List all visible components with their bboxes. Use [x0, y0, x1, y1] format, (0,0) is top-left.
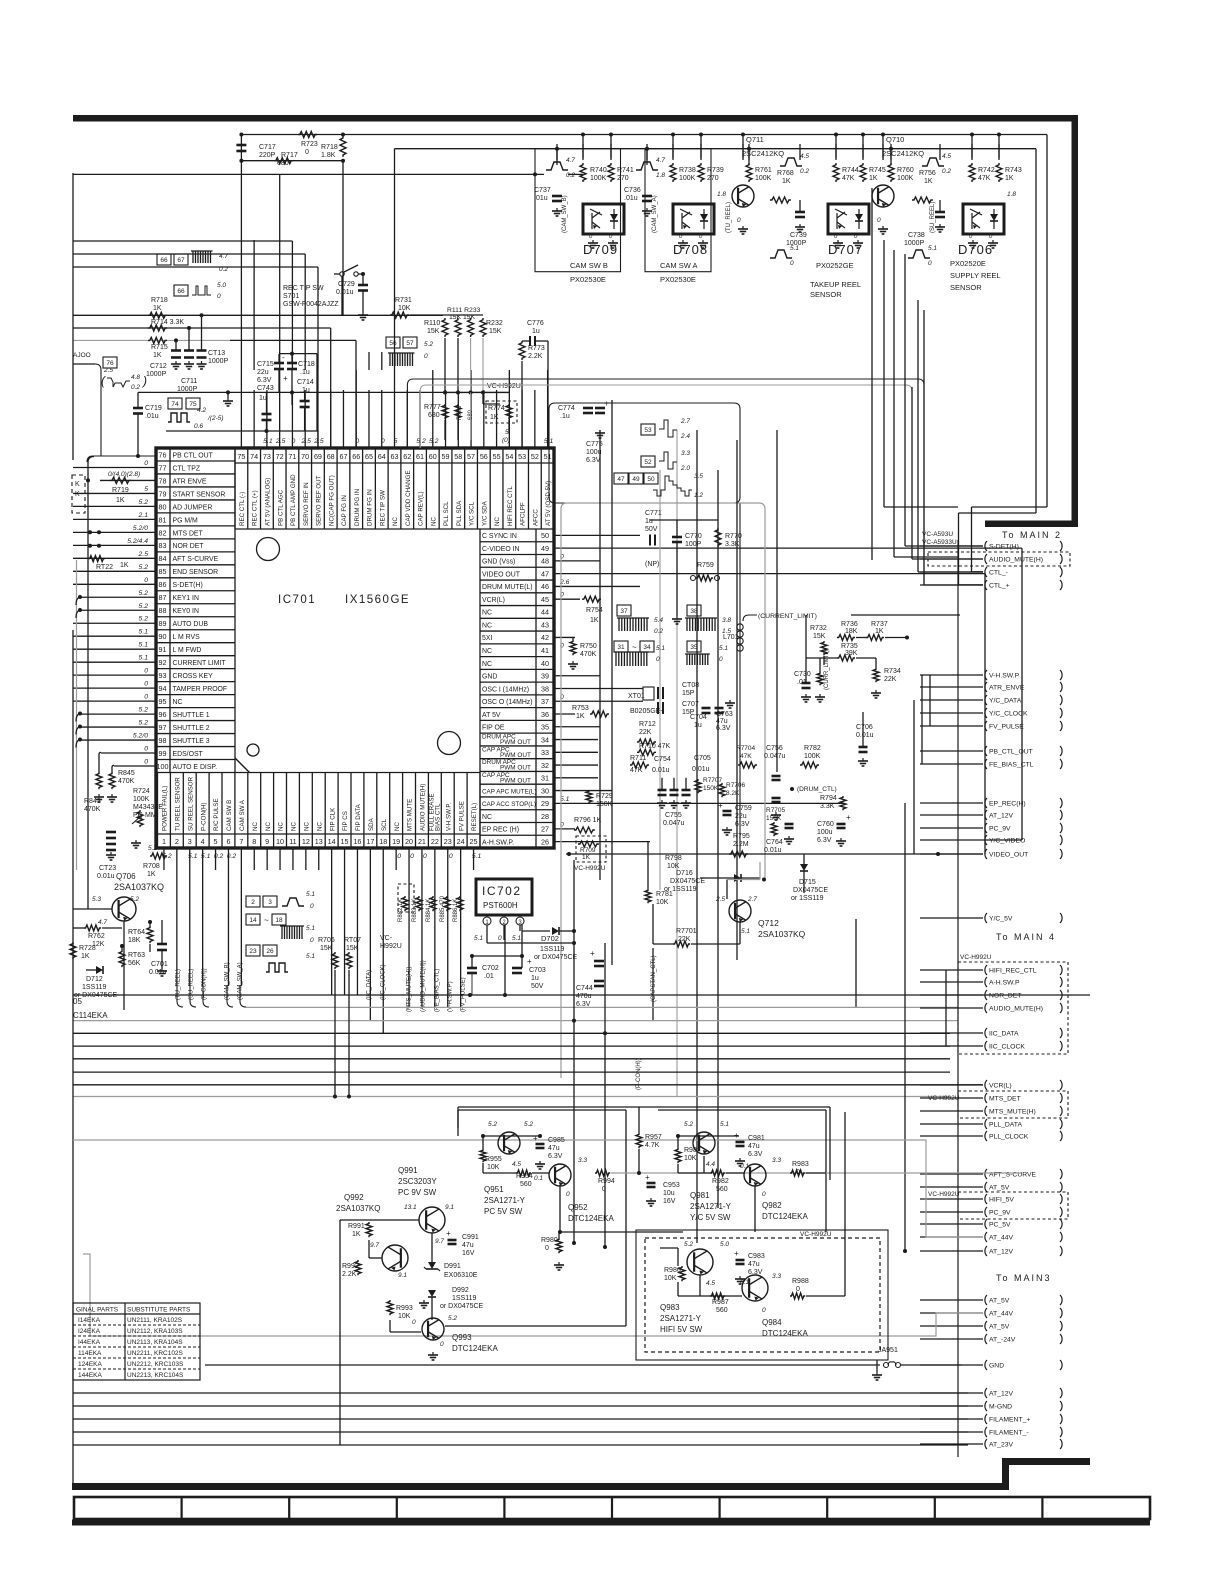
svg-text:START SENSOR: START SENSOR — [173, 491, 226, 498]
svg-text:SHUTTLE 2: SHUTTLE 2 — [173, 725, 210, 732]
svg-text:D707: D707 — [828, 242, 863, 257]
svg-text:EX06310E: EX06310E — [444, 1272, 478, 1279]
svg-text:PB CTL OUT: PB CTL OUT — [173, 452, 214, 459]
svg-text:5.1: 5.1 — [741, 928, 750, 935]
wire top rail bottom section — [458, 1106, 830, 1108]
connector Y/C_VIDEO — [985, 835, 987, 845]
svg-text:C704: C704 — [690, 714, 707, 721]
svg-text:0: 0 — [292, 438, 296, 445]
svg-text:FIP OE: FIP OE — [482, 725, 505, 732]
svg-text:AT_12V: AT_12V — [989, 813, 1014, 820]
svg-text:80: 80 — [159, 502, 167, 511]
bus horizontal lines mid-low — [73, 994, 1090, 996]
svg-text:PLL_CLOCK: PLL_CLOCK — [989, 1134, 1029, 1141]
resistor R754 1K — [582, 596, 601, 602]
svg-text:1K: 1K — [352, 1231, 361, 1238]
svg-text:(DRUM_CTL): (DRUM_CTL) — [797, 786, 837, 793]
svg-text:5.2: 5.2 — [524, 1121, 533, 1128]
svg-text:64: 64 — [378, 452, 386, 461]
capacitor C991 47u — [448, 1239, 457, 1242]
svg-text:NC: NC — [265, 822, 272, 831]
svg-text:87: 87 — [159, 593, 167, 602]
svg-text:0.2: 0.2 — [219, 266, 228, 273]
svg-text:D709: D709 — [583, 242, 618, 257]
svg-text:Q992: Q992 — [344, 1193, 364, 1202]
svg-text:AUTO DUB: AUTO DUB — [173, 621, 209, 628]
svg-text:R7701: R7701 — [676, 928, 697, 935]
svg-text:PG M/M: PG M/M — [173, 517, 199, 524]
svg-text:NC: NC — [252, 822, 259, 831]
svg-text:62: 62 — [403, 452, 411, 461]
svg-text:C776: C776 — [527, 320, 544, 327]
connector PC_9V — [985, 823, 987, 833]
svg-text:5.1: 5.1 — [139, 629, 149, 636]
svg-text:AT 5V: AT 5V — [482, 712, 501, 719]
potentiometer R724 PG MM — [137, 810, 143, 827]
svg-text:PB_CTL_OUT: PB_CTL_OUT — [989, 749, 1033, 756]
connector IIC_DATA — [985, 1028, 987, 1038]
svg-text:76: 76 — [159, 450, 167, 459]
boxed 23 26 squarewave — [246, 945, 260, 956]
svg-text:R777: R777 — [424, 404, 441, 411]
resistor R743 1K — [996, 163, 1002, 182]
svg-text:6.3V: 6.3V — [716, 725, 731, 732]
svg-text:PLL_DATA: PLL_DATA — [989, 1122, 1022, 1129]
svg-text:10K: 10K — [398, 305, 411, 312]
svg-text:5.1: 5.1 — [474, 935, 483, 942]
IC701 right pin grid — [479, 529, 481, 848]
svg-text:100K: 100K — [804, 753, 821, 760]
svg-text:3.3K: 3.3K — [820, 803, 835, 810]
svg-text:0.01u: 0.01u — [336, 289, 354, 296]
svg-text:R795: R795 — [733, 833, 750, 840]
svg-text:15K: 15K — [489, 328, 502, 335]
svg-text:36: 36 — [541, 710, 549, 719]
connector CTL_- — [985, 567, 987, 577]
svg-text:5.2: 5.2 — [130, 896, 139, 903]
wire opto drop lines — [556, 144, 558, 160]
svg-text:K: K — [75, 481, 80, 488]
svg-text:22K: 22K — [884, 676, 897, 683]
svg-text:0.2: 0.2 — [214, 853, 224, 860]
svg-text:R762: R762 — [88, 933, 105, 940]
svg-text:C736: C736 — [624, 187, 641, 194]
svg-text:70: 70 — [301, 452, 309, 461]
svg-text:5.2: 5.2 — [139, 707, 149, 714]
svg-text:M-GND: M-GND — [989, 1404, 1012, 1411]
svg-text:R739: R739 — [707, 167, 724, 174]
svg-text:63: 63 — [391, 452, 399, 461]
svg-text:5.2: 5.2 — [448, 1315, 457, 1322]
svg-text:5XI: 5XI — [482, 635, 492, 642]
resistor R718b 1K — [148, 312, 167, 318]
boxed 37 comb — [617, 605, 631, 616]
svg-text:100u: 100u — [817, 829, 833, 836]
svg-text:0.047u: 0.047u — [764, 753, 786, 760]
svg-text:5.1: 5.1 — [263, 438, 273, 445]
svg-text:R110: R110 — [424, 320, 440, 327]
wires current limit — [856, 637, 866, 639]
svg-text:AJOO: AJOO — [73, 352, 91, 359]
svg-text:2.2M: 2.2M — [733, 841, 749, 848]
svg-text:D715: D715 — [799, 879, 816, 886]
svg-text:HIFI 5V SW: HIFI 5V SW — [660, 1325, 703, 1334]
svg-text:5: 5 — [505, 429, 509, 436]
svg-text:94: 94 — [159, 684, 167, 693]
wire left vertical border — [72, 630, 74, 1483]
svg-text:2.1: 2.1 — [138, 512, 149, 519]
svg-text:C756: C756 — [766, 745, 783, 752]
svg-text:100K: 100K — [133, 796, 150, 803]
svg-text:560: 560 — [716, 1186, 728, 1193]
svg-text:AUDIO_MUTE(H): AUDIO_MUTE(H) — [989, 557, 1043, 564]
resistor R742 47K — [969, 163, 975, 182]
svg-text:5.2: 5.2 — [139, 499, 149, 506]
svg-text:EP REC (H): EP REC (H) — [482, 827, 519, 834]
svg-text:22: 22 — [431, 837, 439, 846]
connector AT_23V — [985, 1439, 987, 1449]
wires bottom pin long droppers — [176, 870, 178, 986]
svg-text:R719: R719 — [112, 487, 129, 494]
capacitor C983 47u — [736, 1259, 745, 1262]
svg-text:5.1: 5.1 — [512, 935, 521, 942]
svg-text:0.1: 0.1 — [740, 1163, 749, 1170]
svg-text:R983: R983 — [792, 1161, 809, 1168]
svg-text:75: 75 — [189, 401, 197, 408]
svg-text:6.3V: 6.3V — [257, 377, 272, 384]
svg-text:C983: C983 — [748, 1253, 765, 1260]
svg-text:4.4: 4.4 — [706, 1161, 715, 1168]
svg-text:42: 42 — [541, 633, 549, 642]
wire left gray vertical — [76, 560, 78, 870]
connector AT_12V — [985, 1388, 987, 1398]
svg-text:23: 23 — [444, 837, 452, 846]
boxed numbers 74 75 with squarewave — [168, 398, 182, 409]
capacitor C739 1000P — [795, 211, 805, 214]
connector AUDIO_MUTE(H) — [985, 554, 987, 564]
svg-text:2.0: 2.0 — [680, 465, 690, 472]
wire rail2 drops — [556, 149, 558, 165]
svg-text:I44EKA: I44EKA — [78, 1339, 101, 1346]
svg-text:2SA1037KQ: 2SA1037KQ — [114, 882, 164, 892]
svg-text:AT_5V: AT_5V — [989, 1298, 1010, 1305]
op-amp U1 IC701 IX1560GE outline — [156, 448, 554, 848]
svg-text:FIP DATA: FIP DATA — [355, 803, 362, 831]
svg-text:68: 68 — [327, 452, 335, 461]
svg-text:56K: 56K — [128, 960, 141, 967]
svg-text:19: 19 — [392, 837, 400, 846]
svg-text:To MAIN 4: To MAIN 4 — [996, 932, 1056, 942]
svg-text:60: 60 — [429, 452, 437, 461]
svg-text:54: 54 — [505, 452, 513, 461]
connector FILAMENT_- — [985, 1427, 987, 1437]
svg-text:57: 57 — [406, 340, 414, 347]
svg-text:100u: 100u — [586, 449, 602, 456]
dashed box HIFI group VC-H992U — [645, 1238, 880, 1352]
wire mid row 854 main — [566, 853, 983, 855]
IC701 left pin grid — [169, 448, 171, 773]
transistor Q712 — [729, 900, 751, 922]
svg-text:R715: R715 — [151, 344, 168, 351]
wires top pin long risers — [240, 161, 242, 370]
svg-text:1K: 1K — [490, 414, 499, 421]
svg-text:EDS/OST: EDS/OST — [173, 751, 204, 758]
svg-text:1.8K: 1.8K — [321, 152, 336, 159]
svg-text:1K: 1K — [924, 178, 933, 185]
wire vertical x894 — [893, 250, 895, 557]
svg-text:47u: 47u — [462, 1242, 474, 1249]
boxed 35 comb — [687, 641, 701, 652]
svg-text:3.3: 3.3 — [772, 1273, 781, 1280]
svg-text:R708: R708 — [143, 863, 160, 870]
IC701 index circle bottom-right — [438, 732, 461, 755]
svg-text:73: 73 — [263, 452, 271, 461]
svg-text:1SS119: 1SS119 — [540, 946, 564, 953]
capacitor C770 100P — [672, 536, 682, 539]
svg-text:44: 44 — [541, 608, 549, 617]
svg-text:+: + — [734, 1249, 739, 1258]
svg-text:FILAMENT_+: FILAMENT_+ — [989, 1417, 1030, 1424]
svg-text:58: 58 — [454, 452, 462, 461]
svg-text:C706: C706 — [856, 724, 873, 731]
capacitor C759 22u — [723, 810, 732, 813]
connector FILAMENT_+ — [985, 1414, 987, 1424]
svg-text:1K: 1K — [590, 617, 599, 624]
boxed 2 3 waveform — [246, 896, 260, 907]
svg-text:VC-H992U: VC-H992U — [928, 1191, 960, 1198]
svg-text:10: 10 — [276, 837, 284, 846]
resistor R843 470K — [96, 772, 102, 789]
svg-text:R738: R738 — [679, 167, 696, 174]
svg-text:55: 55 — [493, 452, 501, 461]
svg-text:4.5: 4.5 — [706, 1280, 715, 1287]
svg-text:47K: 47K — [842, 175, 855, 182]
bus horizontal gray return — [246, 1006, 958, 1008]
svg-text:Y/C SCL: Y/C SCL — [469, 501, 476, 526]
svg-text:FE_BIAS_CTL: FE_BIAS_CTL — [989, 762, 1034, 769]
caps C754 C705 plates — [658, 789, 667, 792]
svg-text:AT_44V: AT_44V — [989, 1235, 1014, 1242]
svg-text:V-H.SW.P.: V-H.SW.P. — [445, 802, 452, 831]
svg-text:95: 95 — [159, 697, 167, 706]
svg-text:2.2K: 2.2K — [528, 353, 543, 360]
svg-text:2.4: 2.4 — [680, 433, 690, 440]
svg-text:22K: 22K — [639, 729, 652, 736]
svg-text:2: 2 — [251, 899, 255, 906]
wire left hook bus vertical x88 — [88, 457, 94, 910]
svg-text:Y/C_CLOCK: Y/C_CLOCK — [989, 711, 1028, 718]
svg-text:.01: .01 — [484, 973, 494, 980]
svg-text:Q981: Q981 — [690, 1191, 710, 1200]
svg-text:5.1: 5.1 — [139, 655, 149, 662]
svg-text:1K: 1K — [116, 497, 125, 504]
svg-text:0.01u: 0.01u — [97, 873, 115, 880]
wire rail vertical ends — [1046, 135, 1048, 508]
svg-text:79: 79 — [159, 489, 167, 498]
svg-text:25: 25 — [470, 837, 478, 846]
svg-text:C729: C729 — [338, 281, 355, 288]
svg-text:PX0252GE: PX0252GE — [816, 261, 854, 270]
svg-text:DTC124EKA: DTC124EKA — [568, 1214, 614, 1223]
svg-text:4.7: 4.7 — [656, 157, 665, 164]
svg-text:0: 0 — [790, 260, 794, 267]
resistor R728 1K — [70, 942, 76, 959]
svg-text:71: 71 — [288, 452, 296, 461]
svg-text:To MAIN 2: To MAIN 2 — [1002, 530, 1062, 540]
transistor Q993 — [422, 1318, 444, 1340]
wire top cluster rails — [241, 134, 1047, 136]
svg-text:0.1: 0.1 — [740, 1279, 749, 1286]
svg-text:4.7: 4.7 — [219, 253, 228, 260]
svg-text:K: K — [75, 491, 80, 498]
svg-text:PLL SCL: PLL SCL — [443, 501, 450, 526]
svg-text:R882 1K: R882 1K — [398, 899, 404, 922]
svg-text:26: 26 — [266, 948, 274, 955]
resistor R774 dashed box — [486, 401, 517, 423]
boxed 38 comb — [687, 605, 701, 616]
transistor Q984 — [742, 1275, 768, 1301]
svg-text:RT64: RT64 — [128, 929, 145, 936]
boxed 47 49 50 stair glyph — [614, 473, 628, 484]
svg-text:2SA1037KQ: 2SA1037KQ — [336, 1204, 380, 1213]
svg-text:4: 4 — [201, 837, 205, 846]
IC701 top pin grid — [235, 462, 554, 464]
svg-text:270: 270 — [617, 175, 629, 182]
svg-text:R731: R731 — [395, 297, 412, 304]
svg-text:R991: R991 — [348, 1223, 365, 1230]
svg-text:0: 0 — [144, 460, 148, 467]
capacitor C711 1000P — [188, 328, 190, 351]
svg-text:UN2212, KRC103S: UN2212, KRC103S — [127, 1361, 184, 1368]
svg-text:R773: R773 — [528, 345, 545, 352]
svg-text:C719: C719 — [145, 405, 162, 412]
svg-text:Q993: Q993 — [452, 1333, 472, 1342]
box Q981 block — [658, 1109, 826, 1111]
svg-text:L M FWD: L M FWD — [173, 647, 202, 654]
svg-text:1.2: 1.2 — [694, 492, 703, 499]
capacitor C775 100u — [599, 430, 601, 433]
svg-text:R718: R718 — [151, 297, 168, 304]
connector V-H.SW.P — [985, 670, 987, 680]
svg-text:3.8: 3.8 — [722, 617, 731, 624]
svg-text:SERVO REF OUT: SERVO REF OUT — [316, 475, 323, 526]
svg-text:DX0475CE: DX0475CE — [670, 878, 705, 885]
svg-text:CAP REV(L): CAP REV(L) — [418, 491, 425, 526]
svg-text:CT13: CT13 — [208, 350, 225, 357]
svg-text:38: 38 — [690, 608, 698, 615]
svg-text:AFCC: AFCC — [532, 509, 539, 526]
svg-text:Q952: Q952 — [568, 1203, 588, 1212]
svg-text:0: 0 — [656, 656, 660, 663]
svg-text:2SC2412KQ: 2SC2412KQ — [882, 149, 924, 158]
svg-text:S701: S701 — [283, 293, 299, 300]
wire vertical x777 — [776, 430, 778, 772]
svg-text:2: 2 — [175, 837, 179, 846]
svg-text:1K: 1K — [153, 305, 162, 312]
svg-text:9: 9 — [265, 837, 269, 846]
svg-text:R843: R843 — [84, 798, 101, 805]
svg-text:5.1: 5.1 — [188, 853, 198, 860]
svg-text:1.8: 1.8 — [717, 191, 726, 198]
diode D715 — [800, 864, 808, 871]
svg-text:0: 0 — [144, 759, 148, 766]
svg-text:R781: R781 — [656, 891, 673, 898]
svg-text:Y/C SDA: Y/C SDA — [481, 500, 488, 526]
svg-text:(CAM_SW_B): (CAM_SW_B) — [562, 195, 568, 233]
left dashed box — [72, 475, 85, 513]
svg-text:C770: C770 — [685, 533, 702, 540]
diode D991 zener — [428, 1262, 436, 1269]
svg-text:UN2213, KRC104S: UN2213, KRC104S — [127, 1372, 184, 1379]
waveform glyph top3 — [780, 158, 802, 166]
connector ATR_ENVE — [985, 682, 987, 692]
wire right bus elbows — [905, 545, 983, 547]
svg-text:5.2: 5.2 — [416, 438, 426, 445]
svg-text:PWM OUT: PWM OUT — [500, 765, 531, 772]
svg-text:0.01u: 0.01u — [692, 766, 710, 773]
svg-text:8.2K: 8.2K — [726, 790, 740, 797]
svg-text:9.1: 9.1 — [398, 1272, 407, 1279]
svg-text:R794: R794 — [820, 795, 837, 802]
resistor R745 1K — [860, 163, 866, 182]
svg-text:10K: 10K — [664, 1275, 677, 1282]
svg-text:5.2/0: 5.2/0 — [133, 733, 148, 740]
connector CTL_+ — [985, 580, 987, 590]
svg-text:5.2: 5.2 — [139, 590, 149, 597]
svg-text:R/C PULSE: R/C PULSE — [213, 798, 220, 831]
wire y315 to resistors — [410, 314, 483, 316]
wire rail1 drops — [582, 135, 584, 159]
svg-text:16V: 16V — [663, 1198, 676, 1205]
svg-text:AFCLPF: AFCLPF — [520, 502, 527, 526]
svg-text:49: 49 — [632, 476, 640, 483]
svg-text:VCR(L): VCR(L) — [482, 597, 505, 604]
svg-text:S-DET(H): S-DET(H) — [989, 544, 1019, 551]
svg-text:0.6: 0.6 — [194, 423, 203, 430]
svg-text:M43439E: M43439E — [133, 804, 163, 811]
svg-text:100K: 100K — [897, 175, 914, 182]
svg-text:R753: R753 — [572, 705, 589, 712]
svg-text:5.0: 5.0 — [217, 282, 226, 289]
svg-text:5.2: 5.2 — [139, 603, 149, 610]
svg-text:R729: R729 — [596, 793, 613, 800]
svg-text:NC: NC — [482, 814, 492, 821]
svg-text:Q983: Q983 — [660, 1303, 680, 1312]
connector MTS_MUTE(H) — [985, 1106, 987, 1116]
svg-text:31: 31 — [617, 644, 625, 651]
svg-text:2.7: 2.7 — [747, 896, 757, 903]
svg-text:DRUM FG IN: DRUM FG IN — [367, 489, 374, 526]
svg-text:100P: 100P — [685, 541, 702, 548]
border frame top bar — [73, 115, 1078, 122]
svg-text:AT 5V (ANALOG): AT 5V (ANALOG) — [265, 478, 272, 526]
svg-text:2.5: 2.5 — [138, 551, 149, 558]
svg-text:33: 33 — [541, 748, 549, 757]
waveform glyph mid3 — [770, 250, 792, 258]
svg-text:Q712: Q712 — [758, 918, 779, 928]
svg-text:C SYNC IN: C SYNC IN — [482, 533, 517, 540]
svg-text:+: + — [283, 374, 288, 383]
svg-text:47K: 47K — [740, 753, 752, 760]
svg-text:4.5: 4.5 — [942, 153, 951, 160]
svg-text:52: 52 — [531, 452, 539, 461]
svg-text:30: 30 — [541, 786, 549, 795]
svg-text:0: 0 — [144, 681, 148, 688]
IC701 index circle bottom-left — [247, 744, 259, 756]
svg-text:470u: 470u — [576, 993, 592, 1000]
optocoupler D708 — [645, 149, 711, 272]
wire vertical x872 — [871, 188, 873, 560]
